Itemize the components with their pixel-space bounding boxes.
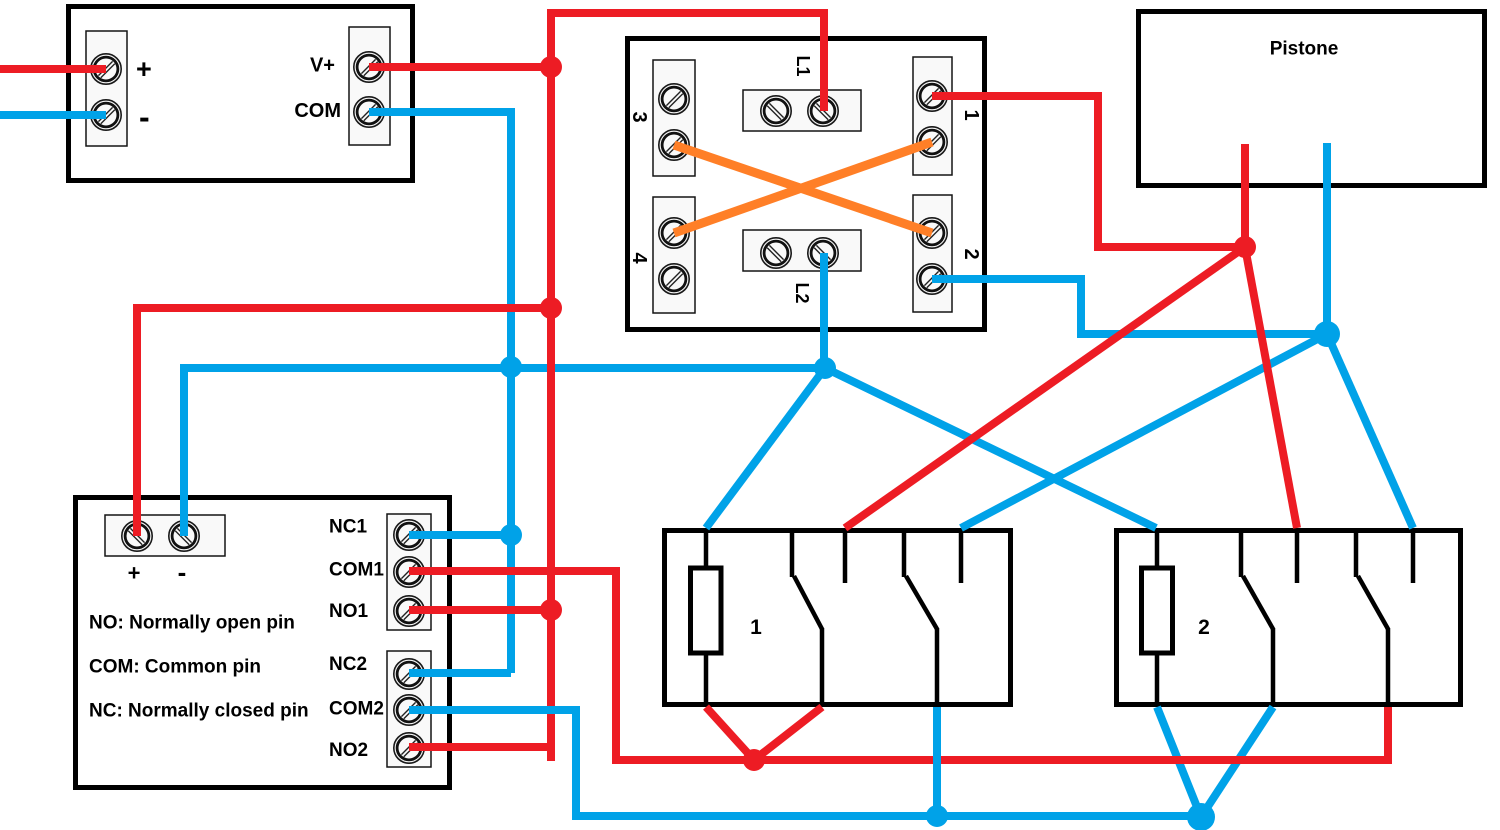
SW1 switch a top pin — [790, 528, 795, 577]
S1 screw L2b — [808, 238, 838, 268]
svg-text:3: 3 — [628, 111, 650, 122]
wire blue SW2 bottom diagonal right — [1201, 707, 1273, 817]
junction node relay plus — [540, 297, 562, 319]
SW1 switch c arm — [906, 576, 937, 629]
wire red COM1 bus — [409, 571, 1388, 760]
S1 terminal block L1 — [743, 90, 861, 131]
svg-text:NO1: NO1 — [329, 601, 369, 622]
SW2 switch a top pin — [1239, 528, 1244, 577]
K1 screw NC2 — [394, 659, 424, 689]
R1 bottom pin — [704, 655, 709, 705]
PS1 terminal screw - — [91, 100, 121, 130]
junction node NC1 — [500, 524, 522, 546]
S1 screw 4b — [659, 264, 689, 294]
resistor R1 (SW1 coil) — [691, 568, 722, 653]
wire blue SW1 switch c drop (over red bus) — [933, 707, 941, 816]
wire red NO2 — [409, 743, 551, 751]
wire blue COM2 bus — [409, 710, 1201, 816]
K1 screw NO1 — [394, 596, 424, 626]
S1 screw 3b — [659, 130, 689, 160]
R1 top pin — [704, 530, 709, 566]
K1 screw COM2 — [394, 695, 424, 725]
limit switch box SW2 — [1117, 531, 1461, 705]
svg-text:L2: L2 — [792, 282, 812, 303]
wire blue supply - input — [0, 111, 106, 119]
wire red NO1 — [409, 606, 551, 614]
svg-text:1: 1 — [750, 616, 762, 639]
limit switch box SW1 — [665, 531, 1011, 705]
svg-text:V+: V+ — [310, 55, 335, 77]
SW2 switch c bottom pin — [1386, 628, 1391, 705]
wire red SW1 bottom diagonal left — [706, 707, 754, 760]
wire blue node to SW2 contact d — [1327, 334, 1413, 528]
SW2 contact b pin — [1295, 530, 1300, 583]
reversing switch box S1 — [628, 39, 985, 330]
SW1 switch a arm — [794, 576, 822, 629]
wire blue NC1 — [409, 531, 511, 539]
SW1 switch c bottom pin — [935, 628, 940, 705]
junction node L2 — [814, 357, 836, 379]
junction node SW2 bottom — [1187, 803, 1215, 830]
wire blue relay minus to L2 node — [184, 368, 825, 536]
junction node piston blue — [1314, 321, 1340, 347]
wire red node to SW2 contact b — [1245, 247, 1297, 528]
SW1 switch c top pin — [902, 528, 907, 577]
svg-text:L1: L1 — [793, 55, 813, 76]
svg-text:2: 2 — [1198, 616, 1210, 639]
svg-text:+: + — [128, 561, 141, 586]
R2 bottom pin — [1155, 655, 1160, 705]
wire orange 4a to 1b — [674, 142, 932, 233]
PS1 input terminal block — [86, 31, 127, 146]
SW2 switch a arm — [1243, 576, 1273, 629]
SW1 switch a bottom pin — [820, 628, 825, 705]
svg-text:-: - — [139, 99, 150, 135]
PS1 terminal screw V+ — [354, 52, 384, 82]
S1 screw 4a — [659, 218, 689, 248]
svg-text:-: - — [178, 557, 187, 587]
SW1 contact d pin — [959, 530, 964, 583]
wire blue COM out — [369, 112, 511, 673]
K1 relay2 terminal block — [387, 651, 431, 767]
wire red SW1 bottom diagonal right — [754, 707, 822, 760]
S1 screw 2b — [917, 264, 947, 294]
K1 screw NC1 — [394, 520, 424, 550]
S1 terminal block 4 — [653, 197, 695, 313]
PS1 terminal screw + — [91, 54, 121, 84]
svg-text:Pistone: Pistone — [1270, 39, 1339, 60]
S1 screw 2a — [917, 218, 947, 248]
S1 screw 1b — [917, 127, 947, 157]
PS1 terminal screw COM — [354, 97, 384, 127]
svg-text:2: 2 — [960, 248, 982, 259]
junction node NO1 — [540, 599, 562, 621]
power supply PS1 — [69, 7, 413, 181]
S1 screw L2a — [761, 238, 791, 268]
resistor R2 (SW2 coil) — [1142, 568, 1173, 653]
junction node SW1 bottom — [743, 749, 765, 771]
wire red piston left lead — [1241, 144, 1249, 247]
svg-text:NO2: NO2 — [329, 740, 368, 761]
svg-text:NC2: NC2 — [329, 654, 367, 675]
svg-text:1: 1 — [960, 109, 982, 120]
S1 terminal block 2 — [913, 195, 952, 312]
svg-text:COM: Common pin: COM: Common pin — [89, 657, 261, 678]
wire red relay plus feed — [137, 308, 551, 536]
K1 coil terminal block — [105, 515, 225, 556]
K1 screw NO2 — [394, 733, 424, 763]
SW2 switch c top pin — [1354, 528, 1359, 577]
S1 terminal block L2 — [743, 230, 861, 271]
svg-text:NC1: NC1 — [329, 517, 367, 538]
wire red main vertical — [551, 13, 824, 761]
junction node V+ — [540, 56, 562, 78]
K1 relay1 terminal block — [387, 514, 431, 630]
SW2 switch a bottom pin — [1271, 628, 1276, 705]
junction node piston red — [1234, 236, 1256, 258]
R2 top pin — [1155, 530, 1160, 566]
svg-text:+: + — [136, 54, 152, 84]
PS1 output terminal block — [349, 27, 390, 145]
S1 screw L1b — [808, 96, 838, 126]
S1 screw L1a — [761, 96, 791, 126]
S1 terminal block 1 — [913, 57, 952, 175]
S1 screw 3a — [659, 84, 689, 114]
piston box M1 — [1139, 12, 1485, 186]
SW2 switch c arm — [1358, 576, 1388, 629]
svg-text:COM2: COM2 — [329, 699, 384, 720]
junction node SW1 blue bottom — [926, 805, 948, 827]
wire orange 3b to 2a — [674, 145, 932, 233]
wire red node to SW1 contact b — [845, 247, 1245, 528]
svg-text:NO: Normally open pin: NO: Normally open pin — [89, 613, 295, 634]
svg-text:4: 4 — [628, 252, 650, 264]
junction node COM cross — [500, 356, 522, 378]
SW2 contact d pin — [1411, 530, 1416, 583]
svg-text:NC: Normally closed pin: NC: Normally closed pin — [89, 701, 309, 722]
svg-text:COM: COM — [294, 100, 341, 122]
K1 screw + — [122, 521, 152, 551]
wire red V+ out — [369, 63, 551, 71]
wire blue NC2 — [409, 669, 511, 677]
S1 terminal block 3 — [653, 60, 695, 176]
S1 screw 1a — [917, 81, 947, 111]
K1 screw - — [169, 521, 199, 551]
wire blue terminal 2 to node — [932, 279, 1327, 334]
SW1 contact b pin — [843, 530, 848, 583]
wire blue piston right lead — [1323, 143, 1331, 334]
wire blue node to SW1 contact d — [961, 334, 1327, 528]
relay module K1 — [76, 498, 450, 788]
K1 screw COM1 — [394, 557, 424, 587]
wire red terminal 1 to node — [932, 96, 1245, 247]
svg-text:COM1: COM1 — [329, 560, 384, 581]
wire red supply + input — [0, 65, 106, 73]
wire blue SW2 bottom diagonal left — [1157, 707, 1201, 817]
wire blue node to SW1 resistor pin — [706, 368, 825, 528]
wire blue node to SW2 resistor pin — [825, 368, 1156, 528]
wire blue L2 drop — [820, 253, 828, 368]
